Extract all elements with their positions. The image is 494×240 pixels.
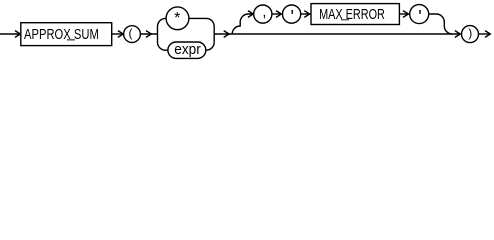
wire box to ( <box>112 33 124 35</box>
circle ) <box>462 26 479 43</box>
arrowhead into ' <box>276 11 281 18</box>
svg-text:': ' <box>290 7 293 27</box>
wire start line <box>0 33 20 35</box>
keyword box MAX_ERROR <box>311 4 399 25</box>
svg-text:): ) <box>468 26 472 40</box>
arrowhead into , <box>248 11 253 18</box>
keyword box APPROX_SUM <box>21 23 112 46</box>
circle * <box>166 7 189 30</box>
main line merge to ) <box>214 33 460 35</box>
svg-text:APPROX SUM: APPROX SUM <box>24 27 99 43</box>
arrowhead before split <box>146 31 151 38</box>
branch1 bottom right arc <box>206 42 214 50</box>
arrowhead into MAX_ERROR <box>304 11 309 18</box>
circle ( <box>124 26 141 43</box>
wire ' to MAX_ERROR <box>301 13 311 15</box>
svg-text:expr: expr <box>174 42 201 58</box>
svg-text:(: ( <box>129 26 133 40</box>
circle ' (close quote) <box>410 5 429 24</box>
circle ' (open quote) <box>283 5 301 23</box>
branch1 top right wire <box>189 18 215 42</box>
svg-text:MAX ERROR: MAX ERROR <box>319 7 385 23</box>
end arrowhead <box>485 31 490 38</box>
branch1 left vertical with arcs <box>158 18 168 50</box>
branch2 down merge <box>429 14 453 34</box>
branch2 up split <box>232 14 253 34</box>
start arrowhead <box>15 31 20 38</box>
svg-text:,: , <box>262 5 266 21</box>
wire ( to branch split <box>141 33 158 35</box>
wire end line <box>478 33 490 35</box>
svg-text:*: * <box>174 10 180 27</box>
arrowhead after merge <box>224 31 229 38</box>
arrowhead into ( <box>118 31 123 38</box>
oval expr <box>168 42 206 58</box>
wire MAX_ERROR to ' <box>399 13 409 15</box>
arrowhead into closing ' <box>403 11 408 18</box>
arrowhead into ) <box>455 31 460 38</box>
svg-text:': ' <box>418 7 421 27</box>
wire , to ' <box>272 13 281 15</box>
circle , <box>254 5 272 23</box>
